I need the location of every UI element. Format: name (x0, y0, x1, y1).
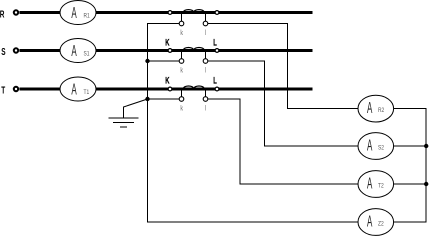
svg-text:R: R (0, 8, 5, 20)
svg-text:K: K (165, 75, 169, 86)
svg-text:A: A (367, 99, 373, 117)
svg-text:K: K (165, 37, 169, 48)
svg-text:A: A (367, 137, 373, 155)
svg-text:A: A (71, 81, 77, 99)
svg-text:l: l (205, 67, 206, 75)
svg-text:S1: S1 (84, 51, 90, 58)
svg-text:R1: R1 (84, 13, 90, 20)
svg-text:T: T (1, 84, 5, 96)
svg-text:A: A (71, 42, 77, 60)
svg-text:T1: T1 (84, 89, 90, 96)
svg-text:A: A (367, 213, 373, 231)
svg-text:l: l (205, 29, 206, 37)
svg-text:S: S (1, 45, 5, 57)
svg-text:S2: S2 (378, 145, 384, 152)
svg-text:l: l (205, 105, 206, 113)
svg-text:L: L (213, 37, 217, 48)
svg-text:T2: T2 (378, 183, 384, 190)
svg-text:A: A (367, 175, 373, 193)
svg-text:L: L (213, 75, 217, 86)
svg-text:R2: R2 (378, 108, 384, 115)
svg-text:Z2: Z2 (378, 221, 384, 228)
svg-text:A: A (71, 4, 77, 22)
